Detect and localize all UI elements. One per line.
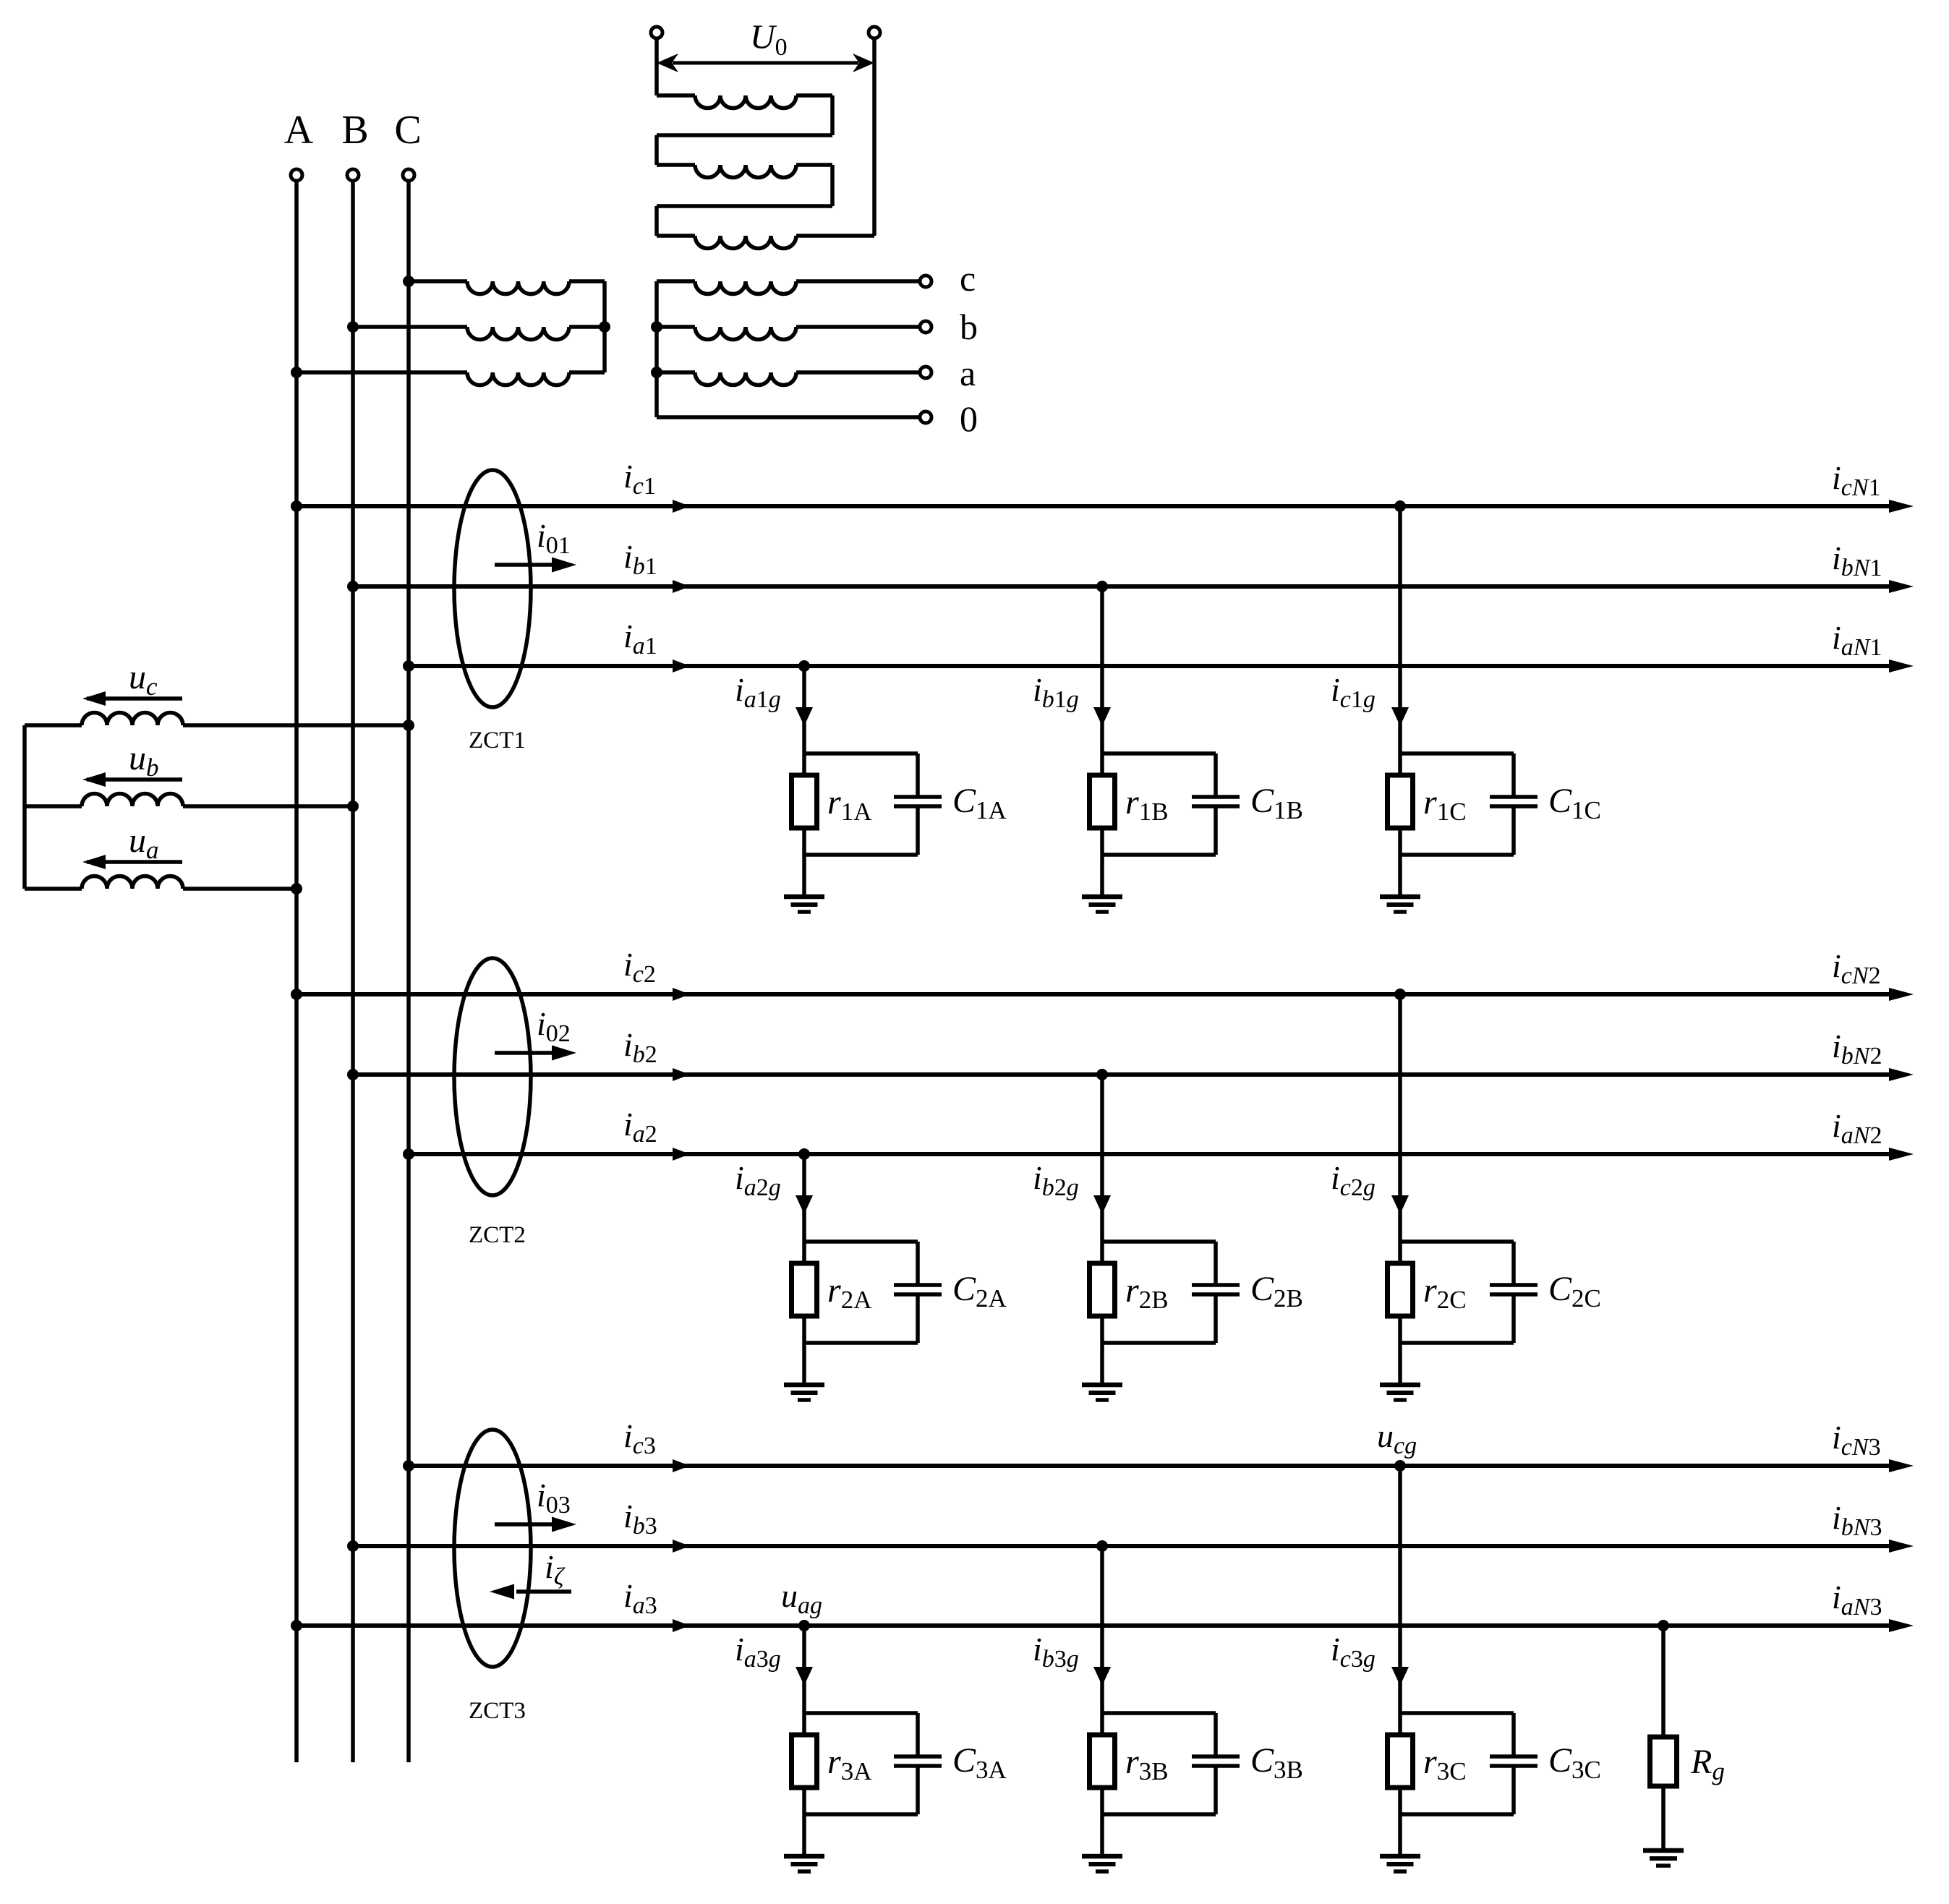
node secondary b (651, 321, 662, 333)
node feeder 1 B branch (1096, 581, 1108, 592)
bus terminal B (347, 169, 359, 181)
node feeder 1 row a / bus (403, 660, 414, 672)
i_b3g arrow (1093, 1667, 1111, 1686)
ground 3B (1082, 1856, 1122, 1871)
feeder 1 phase B ground branch wire (1100, 586, 1104, 897)
open-delta right terminal (869, 27, 880, 38)
feeder 2 row a wire (409, 1148, 1914, 1161)
node feeder 1 row b / bus (347, 581, 359, 592)
resistor r1A (792, 775, 817, 828)
node R_g branch (1658, 1620, 1669, 1631)
open-delta link wire 1 (657, 95, 832, 165)
VT primary winding phase B (353, 327, 605, 340)
u_c arrow (82, 691, 182, 706)
feeder 2 row b wire (353, 1068, 1914, 1081)
terminal c (920, 276, 931, 287)
node feeder 1 A branch (798, 660, 810, 672)
RC loop wires 1A (804, 754, 918, 855)
ground 2C (1380, 1385, 1420, 1400)
feeder 3 phase C ground branch wire (1398, 1466, 1402, 1856)
RC loop wires 2B (1102, 1242, 1216, 1343)
RC loop wires 1B (1102, 754, 1216, 855)
node u_b / bus B (347, 801, 359, 812)
node feeder 3 row c / bus (403, 1460, 414, 1472)
VT secondary winding b (657, 327, 920, 340)
bus A wire (294, 181, 299, 1762)
ground 3A (784, 1856, 824, 1871)
svg-text:c: c (960, 258, 976, 299)
RC loop wires 3B (1102, 1713, 1216, 1814)
node feeder 3 row a / bus (291, 1620, 302, 1631)
svg-text:B: B (341, 108, 368, 153)
VT secondary 0 wire (657, 415, 920, 419)
VT primary winding phase C (409, 281, 605, 294)
i_01 arrow (495, 558, 576, 573)
open-delta right bus wire (872, 38, 877, 236)
VT secondary winding c (657, 281, 920, 294)
svg-text:A: A (284, 108, 314, 153)
feeder 1 phase A ground branch wire (802, 666, 806, 897)
VT secondary bus wire (654, 281, 659, 417)
capacitor C1A (894, 797, 942, 806)
i_b2g arrow (1093, 1195, 1111, 1214)
feeder 2 phase A ground branch wire (802, 1154, 806, 1385)
open-delta winding 2 (657, 165, 832, 178)
i_c1g arrow (1391, 707, 1409, 726)
ZCT3 ellipse (454, 1430, 531, 1667)
feeder 3 row b wire (353, 1540, 1914, 1553)
capacitor C3A (894, 1756, 942, 1766)
resistor r1C (1388, 775, 1413, 828)
node feeder 2 row b / bus (347, 1069, 359, 1080)
feeder 1 row b wire (353, 580, 1914, 593)
node primary B tap (347, 321, 359, 333)
RC loop wires 2C (1400, 1242, 1514, 1343)
i_03 arrow (495, 1517, 576, 1532)
RC loop wires 1C (1400, 754, 1514, 855)
RC loop wires 3A (804, 1713, 918, 1814)
bus terminal C (403, 169, 414, 181)
feeder 3 phase A ground branch wire (802, 1626, 806, 1856)
terminal a (920, 367, 931, 378)
feeder 2 phase B ground branch wire (1100, 1075, 1104, 1385)
resistor r1B (1090, 775, 1115, 828)
node feeder 3 row b / bus (347, 1540, 359, 1552)
open-delta link wire 2 (657, 165, 832, 236)
i_b1g arrow (1093, 707, 1111, 726)
i_a2g arrow (796, 1195, 813, 1214)
capacitor C2A (894, 1285, 942, 1294)
svg-text:ZCT3: ZCT3 (469, 1698, 526, 1724)
open-delta left terminal (651, 27, 662, 38)
node primary A tap (291, 367, 302, 378)
capacitor C2C (1490, 1285, 1538, 1294)
svg-text:0: 0 (960, 398, 978, 439)
source neutral bus wire (22, 725, 27, 889)
open-delta winding 1 (657, 95, 832, 108)
ground 1B (1082, 897, 1122, 912)
open-delta winding 3 (657, 236, 874, 249)
node feeder 2 row c / bus (291, 989, 302, 1000)
i_a1g arrow (796, 707, 813, 726)
node feeder 1 C branch (1394, 500, 1406, 512)
feeder 1 phase C ground branch wire (1398, 506, 1402, 897)
feeder 3 row a wire (297, 1619, 1914, 1632)
open-delta left lead wire (654, 38, 659, 95)
bus terminal A (291, 169, 302, 181)
terminal b (920, 321, 931, 333)
ground 2A (784, 1385, 824, 1400)
inductor u_c (25, 713, 409, 726)
capacitor C3B (1192, 1756, 1240, 1766)
resistor Rg (1650, 1737, 1677, 1786)
svg-text:ZCT1: ZCT1 (469, 727, 526, 754)
R_g branch wire (1661, 1626, 1666, 1850)
feeder 1 row c wire (297, 500, 1914, 513)
node feeder 2 B branch (1096, 1069, 1108, 1080)
node primary neutral (599, 321, 610, 333)
node feeder 2 A branch (798, 1148, 810, 1160)
svg-text:b: b (960, 307, 978, 347)
feeder 1 row a wire (409, 659, 1914, 673)
feeder 2 phase C ground branch wire (1398, 994, 1402, 1385)
ground 1A (784, 897, 824, 912)
VT primary winding phase A (297, 372, 605, 385)
node feeder 2 C branch (1394, 989, 1406, 1000)
resistor r3A (792, 1735, 817, 1788)
capacitor C1C (1490, 797, 1538, 806)
u_a arrow (82, 855, 182, 869)
VT secondary winding a (657, 372, 920, 385)
feeder 3 phase B ground branch wire (1100, 1546, 1104, 1856)
resistor r2B (1090, 1263, 1115, 1316)
feeder 2 row c wire (297, 988, 1914, 1001)
node primary C tap (403, 276, 414, 287)
capacitor C1B (1192, 797, 1240, 806)
inductor u_a (25, 876, 297, 889)
node feeder 3 A branch (798, 1620, 810, 1631)
resistor r3C (1388, 1735, 1413, 1788)
svg-text:ZCT2: ZCT2 (469, 1222, 526, 1248)
ZCT2 ellipse (454, 958, 531, 1195)
ground 3C (1380, 1856, 1420, 1871)
bus B wire (351, 181, 355, 1762)
ground Rg (1643, 1850, 1684, 1866)
capacitor C3C (1490, 1756, 1538, 1766)
ground 1C (1380, 897, 1420, 912)
VT primary neutral bus wire (602, 281, 607, 372)
node u_c / bus C (403, 720, 414, 731)
svg-text:a: a (960, 353, 976, 393)
svg-text:C: C (394, 108, 421, 153)
resistor r2C (1388, 1263, 1413, 1316)
resistor r3B (1090, 1735, 1115, 1788)
capacitor C2B (1192, 1285, 1240, 1294)
i_zeta arrow (490, 1584, 571, 1600)
RC loop wires 3C (1400, 1713, 1514, 1814)
ground 2B (1082, 1385, 1122, 1400)
node feeder 1 row c / bus (291, 500, 302, 512)
i_c3g arrow (1391, 1667, 1409, 1686)
i_c2g arrow (1391, 1195, 1409, 1214)
ZCT1 ellipse (454, 470, 531, 707)
node feeder 3 C branch (1394, 1460, 1406, 1472)
u_b arrow (82, 772, 182, 787)
U0 dimension arrow (657, 54, 874, 72)
node feeder 3 B branch (1096, 1540, 1108, 1552)
node u_a / bus A (291, 883, 302, 895)
feeder 3 row c wire (409, 1459, 1914, 1472)
node feeder 2 row a / bus (403, 1148, 414, 1160)
i_a3g arrow (796, 1667, 813, 1686)
node secondary a (651, 367, 662, 378)
resistor r2A (792, 1263, 817, 1316)
inductor u_b (25, 794, 353, 807)
RC loop wires 2A (804, 1242, 918, 1343)
bus C wire (406, 181, 411, 1762)
i_02 arrow (495, 1046, 576, 1061)
terminal 0 (920, 411, 931, 423)
